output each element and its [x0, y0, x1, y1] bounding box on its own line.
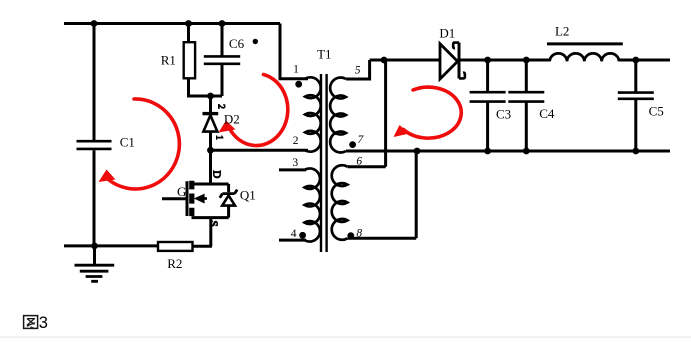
svg-text:7: 7 [358, 134, 365, 146]
svg-text:S: S [207, 220, 219, 226]
svg-text:R2: R2 [167, 256, 182, 271]
svg-text:2: 2 [216, 104, 226, 109]
svg-text:L2: L2 [555, 24, 569, 39]
svg-text:T1: T1 [317, 46, 331, 61]
svg-text:C1: C1 [120, 134, 135, 149]
svg-text:4: 4 [291, 228, 297, 240]
svg-text:C5: C5 [649, 104, 664, 119]
svg-text:3: 3 [292, 157, 298, 169]
svg-text:2: 2 [293, 135, 299, 147]
svg-text:D1: D1 [439, 25, 455, 40]
svg-text:C4: C4 [539, 106, 555, 121]
svg-text:6: 6 [356, 156, 362, 168]
svg-text:R1: R1 [161, 53, 176, 68]
svg-text:D: D [210, 170, 222, 178]
svg-text:1: 1 [293, 64, 299, 76]
svg-text:Q1: Q1 [240, 187, 256, 202]
svg-text:C6: C6 [229, 36, 245, 51]
svg-text:8: 8 [356, 228, 362, 240]
svg-text:1: 1 [214, 135, 224, 140]
svg-text:C3: C3 [496, 106, 511, 121]
svg-text:D2: D2 [224, 111, 240, 126]
svg-text:G: G [177, 184, 186, 199]
svg-text:3: 3 [39, 314, 48, 332]
svg-text:5: 5 [355, 65, 361, 77]
